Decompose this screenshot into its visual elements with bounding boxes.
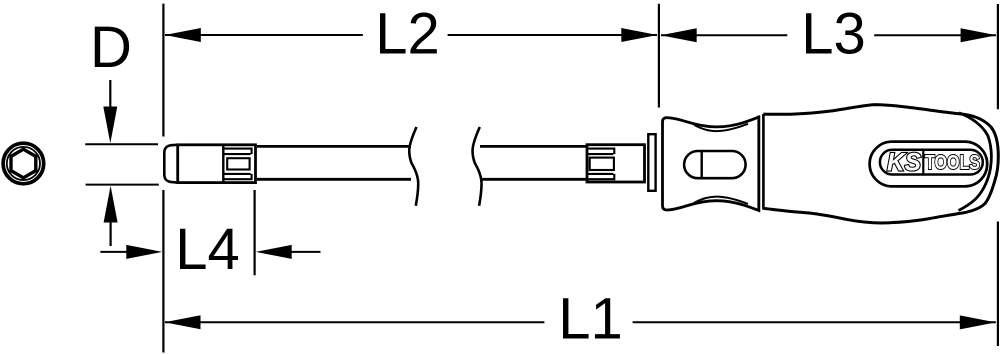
L3 dimension line right segment bbox=[874, 34, 996, 36]
D upper arrow tail bbox=[109, 80, 111, 107]
bit holder cap divider bbox=[176, 145, 178, 183]
collar slot bbox=[684, 151, 746, 178]
extension line left bottom segment bbox=[162, 190, 164, 353]
L2 right arrowhead bbox=[621, 28, 657, 42]
L4 left arrow tail bbox=[100, 251, 127, 253]
L1 left arrowhead bbox=[165, 315, 201, 329]
bit holder tip cap bbox=[164, 145, 177, 183]
bit holder knurl left vertical bbox=[222, 145, 224, 182]
extension line right top segment bbox=[997, 4, 999, 109]
handle front collar outline bbox=[663, 117, 759, 210]
extension line right bottom segment bbox=[997, 222, 999, 347]
collar inner contour bottom bbox=[694, 197, 748, 204]
svg-text:D: D bbox=[90, 15, 132, 80]
collar slot divider bbox=[701, 151, 703, 178]
hex socket end view: outer circle bbox=[3, 143, 44, 184]
svg-text:L2: L2 bbox=[375, 1, 440, 66]
junction line 2 bbox=[762, 114, 765, 210]
rear knurl top band bbox=[587, 149, 615, 155]
L3 right arrowhead bbox=[961, 28, 997, 42]
L2 left arrowhead bbox=[165, 28, 201, 42]
bit holder body bbox=[178, 145, 256, 183]
L2 dimension line left segment bbox=[165, 34, 363, 36]
svg-text:L4: L4 bbox=[175, 217, 240, 282]
rear knurl window bbox=[590, 158, 614, 170]
extension line left (x=163.4) top segment bbox=[162, 4, 164, 137]
svg-text:L3: L3 bbox=[801, 2, 866, 67]
bit holder knurl top band bbox=[223, 149, 252, 155]
extension line L4 right (x=254.6) bbox=[254, 190, 256, 275]
collar inner contour top bbox=[694, 124, 748, 131]
handle end cap crease bbox=[959, 113, 992, 211]
D upper arrowhead (down) bbox=[103, 107, 117, 144]
rear shank body bbox=[587, 145, 645, 182]
ferrule bbox=[648, 134, 655, 191]
break line 1 bbox=[409, 127, 418, 206]
L1 right arrowhead bbox=[960, 315, 996, 329]
L2 dimension line right segment bbox=[448, 34, 657, 36]
extension line middle (x=658.9) bbox=[658, 4, 660, 108]
L4 right arrowhead (points left) bbox=[256, 245, 292, 259]
logo stadium bbox=[880, 150, 983, 175]
D lower arrowhead (up) bbox=[104, 186, 118, 223]
logo divider bbox=[922, 150, 924, 175]
L1 dimension line right segment bbox=[633, 321, 996, 323]
bit holder knurl window bbox=[227, 158, 249, 169]
L3 dimension line left segment bbox=[661, 34, 787, 36]
hex socket end view: inner ring bbox=[7, 147, 40, 180]
shaft bottom line segment B bbox=[480, 178, 587, 181]
L4 right arrow tail bbox=[291, 251, 321, 253]
rear knurl bottom band bbox=[587, 174, 615, 179]
shaft top line segment B bbox=[480, 145, 587, 148]
shaft bottom line segment A bbox=[257, 178, 411, 181]
bit holder knurl bottom band bbox=[223, 174, 252, 179]
L3 left arrowhead bbox=[661, 28, 697, 42]
svg-text:TOOLS: TOOLS bbox=[925, 151, 980, 174]
D lower arrow tail bbox=[109, 222, 111, 246]
shaft top line segment A bbox=[257, 145, 411, 148]
logo panel bbox=[870, 142, 988, 187]
junction line 1 bbox=[757, 116, 760, 212]
svg-text:L1: L1 bbox=[558, 287, 623, 352]
hex socket end view: hexagon bbox=[11, 149, 36, 178]
L1 dimension line left segment bbox=[165, 321, 544, 323]
D lower extension line bbox=[86, 184, 159, 186]
D upper extension line bbox=[85, 143, 158, 145]
L4 left arrowhead (points right) bbox=[126, 245, 162, 259]
handle body outline bbox=[763, 105, 998, 223]
svg-text:KS: KS bbox=[887, 149, 921, 177]
break line 2 bbox=[473, 127, 482, 206]
